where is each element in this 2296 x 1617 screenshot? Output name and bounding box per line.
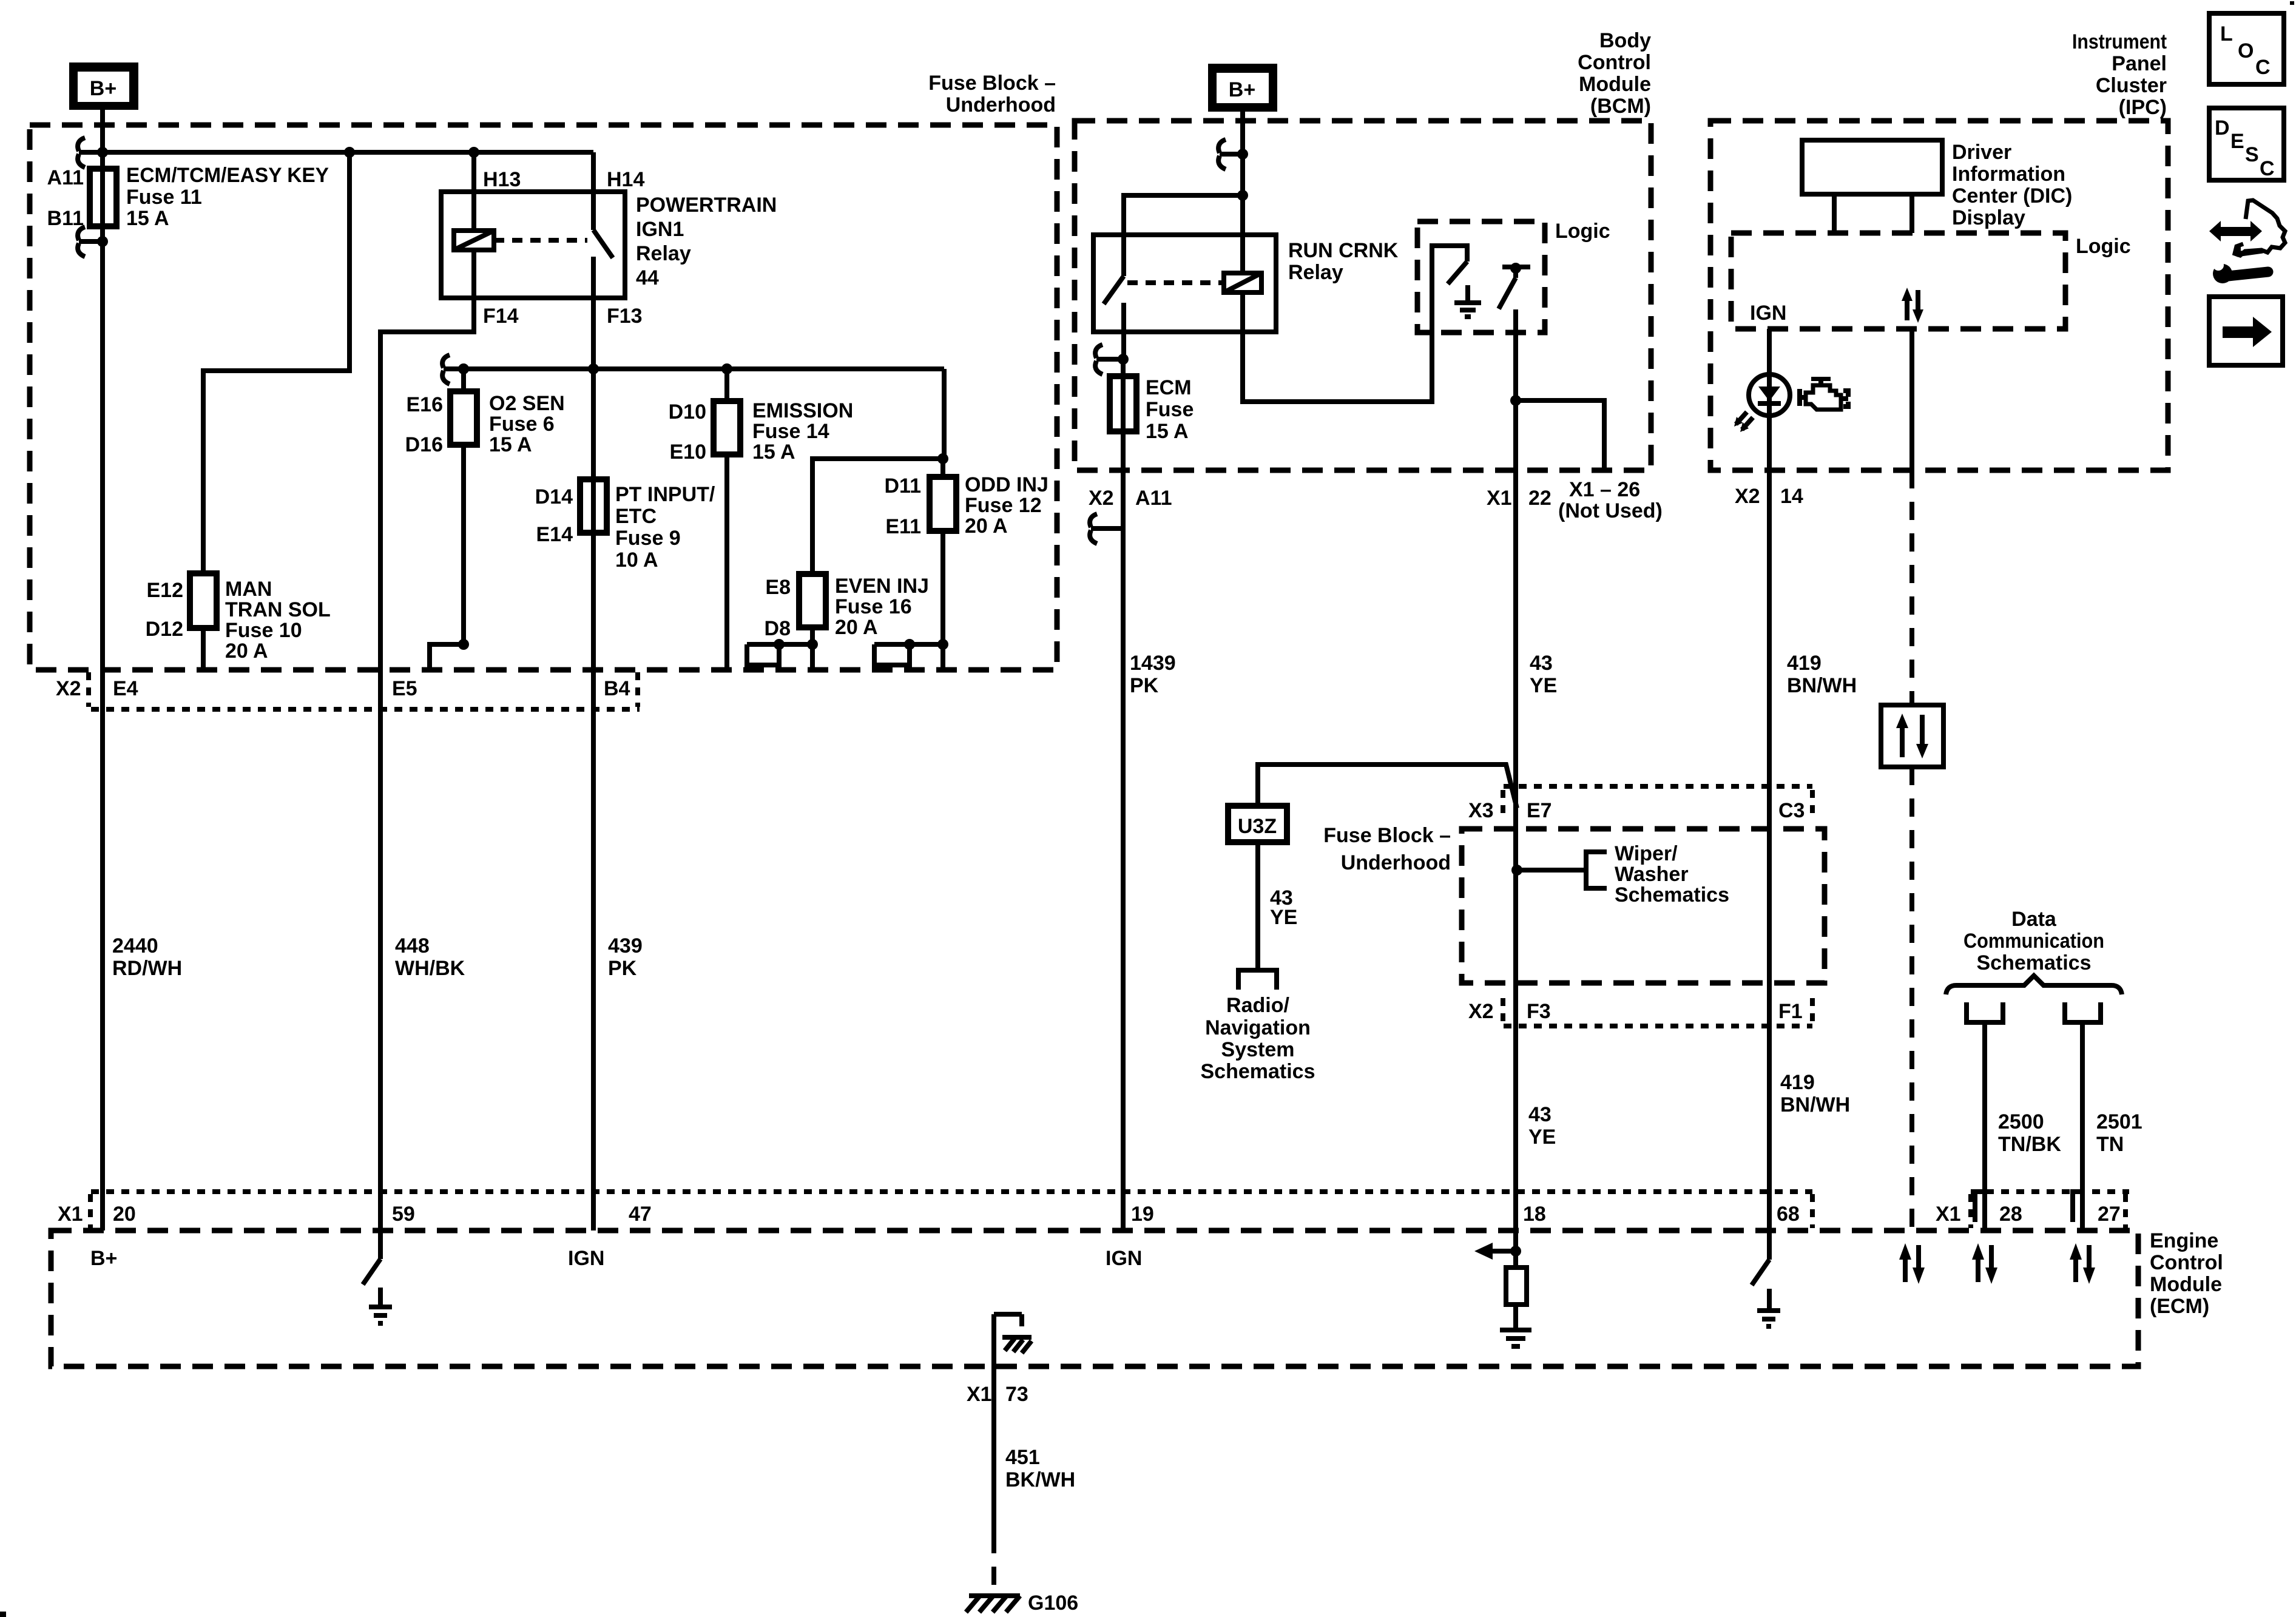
svg-text:20: 20 — [113, 1203, 136, 1226]
connector row X2 fuse block — [89, 672, 640, 709]
label Fuse Block Underhood — [928, 72, 1056, 116]
svg-text:43: 43 — [1528, 1103, 1551, 1126]
relay RUN CRNK box — [1093, 235, 1276, 332]
wire H13 coil feed — [471, 152, 476, 231]
svg-text:Cluster: Cluster — [2096, 74, 2167, 97]
svg-text:Fuse 11: Fuse 11 — [126, 186, 202, 209]
svg-text:Underhood: Underhood — [1341, 851, 1451, 874]
node emission fuse tap — [721, 363, 732, 374]
svg-text:POWERTRAIN: POWERTRAIN — [636, 194, 777, 217]
svg-text:Fuse 10: Fuse 10 — [225, 619, 302, 642]
legend icon wrench — [2212, 260, 2268, 283]
svg-text:Logic: Logic — [2076, 235, 2131, 258]
connector clip B11 — [78, 227, 108, 257]
relay K44 switch — [593, 152, 613, 298]
svg-text:E12: E12 — [147, 579, 184, 602]
svg-text:Fuse 6: Fuse 6 — [489, 413, 555, 436]
svg-text:U3Z: U3Z — [1238, 815, 1277, 838]
wire 2440 to ECM pin 20 — [100, 241, 105, 1230]
svg-text:Data: Data — [2011, 908, 2057, 931]
wire F14 to pin 59 (448) — [380, 250, 474, 1230]
wire pin 18 internal — [1513, 1230, 1518, 1268]
legend icon DESC — [2209, 108, 2284, 180]
svg-text:Radio/: Radio/ — [1226, 994, 1289, 1017]
svg-text:Instrument: Instrument — [2072, 30, 2167, 53]
switch ECM pin 68 — [1752, 1232, 1769, 1285]
value label ECM Fuse 15A — [1146, 376, 1194, 443]
svg-text:Underhood: Underhood — [946, 93, 1056, 116]
node even inj branch — [937, 453, 948, 464]
svg-text:Washer: Washer — [1615, 863, 1689, 886]
svg-text:IGN: IGN — [1106, 1247, 1142, 1270]
ground ECM pin 59 — [369, 1288, 392, 1323]
wire wiper washer branch — [1517, 868, 1586, 873]
value label Fuse 14 15A — [752, 399, 853, 464]
wire X1-26 not used — [1516, 400, 1604, 470]
svg-text:O2 SEN: O2 SEN — [489, 392, 565, 415]
module IPC box — [1710, 121, 2168, 470]
wire 451 dashed — [991, 1535, 996, 1596]
wire B+ into BCM — [1240, 112, 1245, 195]
svg-text:44: 44 — [636, 266, 659, 289]
connector clip below BCM — [1090, 514, 1123, 544]
connector bracket wiper washer — [1586, 852, 1607, 888]
svg-text:Driver: Driver — [1952, 141, 2011, 164]
wire label 2500 TN/BK — [1998, 1110, 2061, 1156]
svg-text:439: 439 — [608, 934, 643, 957]
module ECM box — [51, 1230, 2138, 1366]
value label Fuse 11 15A — [126, 164, 329, 230]
svg-text:Fuse 9: Fuse 9 — [615, 527, 681, 550]
wire ignition fuse bus — [444, 366, 944, 371]
relay RUN CRNK link dashed — [1127, 280, 1224, 285]
svg-text:X1 – 26: X1 – 26 — [1569, 478, 1640, 501]
fuse F11 ECM/TCM/EASY KEY — [90, 152, 116, 241]
wire label 2440 RD/WH — [112, 934, 182, 980]
label Driver Information Center — [1952, 141, 2072, 229]
svg-text:Relay: Relay — [636, 242, 691, 265]
svg-text:Module: Module — [1579, 73, 1651, 96]
svg-text:Fuse: Fuse — [1146, 398, 1194, 421]
svg-text:B+: B+ — [90, 1247, 117, 1270]
svg-text:YE: YE — [1270, 906, 1297, 929]
svg-text:TRAN SOL: TRAN SOL — [225, 598, 331, 621]
relay K44 coil — [454, 231, 494, 250]
svg-text:Fuse 16: Fuse 16 — [835, 595, 912, 618]
data arrows IPC logic — [1902, 288, 1923, 323]
svg-text:D14: D14 — [535, 485, 573, 508]
wire 451 solid — [991, 1314, 996, 1535]
svg-text:2440: 2440 — [112, 934, 158, 957]
wire U3Z branch — [1258, 765, 1517, 808]
svg-text:Relay: Relay — [1288, 261, 1343, 284]
wire U3Z to radio — [1255, 842, 1260, 970]
svg-text:(ECM): (ECM) — [2150, 1295, 2209, 1318]
connector row X1 ECM dotted — [90, 1192, 1812, 1228]
wire 2501 TN — [2080, 1022, 2085, 1230]
svg-text:X1: X1 — [1936, 1203, 1961, 1226]
pin X1-26 label — [1558, 478, 1663, 522]
wire branch to even inj — [812, 459, 943, 574]
value label Fuse 10 20A — [225, 578, 331, 663]
wire even inj splice loop — [747, 639, 818, 665]
svg-text:C: C — [2255, 56, 2271, 79]
mark page dot top right — [2290, 1, 2294, 5]
svg-text:YE: YE — [1528, 1126, 1556, 1149]
svg-text:ETC: ETC — [615, 505, 657, 528]
label Fuse Block Underhood middle — [1323, 824, 1451, 874]
svg-text:Fuse 12: Fuse 12 — [965, 494, 1042, 517]
icon check engine — [1800, 377, 1848, 410]
svg-text:X3: X3 — [1468, 799, 1494, 822]
svg-text:20 A: 20 A — [965, 515, 1008, 538]
svg-text:27: 27 — [2098, 1203, 2121, 1226]
value label RUN CRNK Relay — [1288, 239, 1399, 284]
svg-text:Control: Control — [1578, 51, 1651, 74]
connector clip BCM B+ — [1218, 140, 1248, 169]
svg-text:BN/WH: BN/WH — [1780, 1093, 1850, 1116]
wire serial data IPC leg — [1909, 329, 1914, 470]
svg-text:20 A: 20 A — [835, 616, 878, 639]
logic box IPC — [1731, 233, 2065, 329]
svg-text:(IPC): (IPC) — [2119, 96, 2167, 119]
wire serial data dashed upper — [1909, 470, 1914, 705]
resistor ECM pull — [1506, 1268, 1527, 1305]
connector fork radio — [1238, 970, 1277, 990]
relay RUN CRNK switch — [1104, 235, 1124, 359]
svg-text:Navigation: Navigation — [1205, 1016, 1311, 1039]
label Engine Control Module — [2150, 1229, 2223, 1318]
wire 1439 to ECM pin 19 — [1121, 470, 1126, 1230]
svg-text:EVEN INJ: EVEN INJ — [835, 575, 929, 598]
ground G106 — [966, 1596, 1020, 1612]
svg-text:Control: Control — [2150, 1251, 2223, 1274]
legend icon hand arrow — [2209, 200, 2285, 255]
svg-text:Module: Module — [2150, 1273, 2222, 1296]
svg-text:RUN CRNK: RUN CRNK — [1288, 239, 1399, 262]
wire odd inj splice loop — [874, 639, 948, 665]
wire IGN lamp — [1767, 329, 1772, 470]
svg-text:(BCM): (BCM) — [1590, 95, 1651, 118]
svg-text:68: 68 — [1777, 1203, 1800, 1226]
svg-text:2500: 2500 — [1998, 1110, 2044, 1133]
wire serial data dashed lower — [1909, 767, 1914, 1232]
wire coil to logic — [1243, 246, 1467, 402]
svg-text:Display: Display — [1952, 206, 2025, 229]
label Radio Navigation — [1201, 994, 1315, 1083]
power symbol B+ (BCM) — [1208, 64, 1277, 112]
svg-text:2501: 2501 — [2096, 1110, 2142, 1133]
wire pin 73 ground hook — [994, 1314, 1022, 1326]
svg-text:Fuse Block –: Fuse Block – — [928, 72, 1056, 95]
node B+ branch — [1237, 190, 1248, 201]
svg-text:Fuse Block –: Fuse Block – — [1323, 824, 1451, 847]
legend icon LOC — [2209, 13, 2284, 84]
svg-text:D8: D8 — [765, 617, 791, 640]
svg-text:43: 43 — [1530, 652, 1553, 675]
wire label 1439 PK — [1130, 652, 1176, 697]
svg-text:H14: H14 — [607, 168, 644, 191]
svg-text:28: 28 — [1999, 1203, 2022, 1226]
relay RUN CRNK coil — [1224, 195, 1261, 292]
svg-text:L: L — [2220, 22, 2233, 46]
svg-text:Information: Information — [1952, 163, 2065, 186]
power symbol B+ (left) — [69, 62, 138, 110]
svg-text:59: 59 — [392, 1203, 415, 1226]
svg-text:Fuse 14: Fuse 14 — [752, 420, 829, 443]
fuse F6 O2 SEN — [450, 369, 477, 644]
display DIC — [1802, 140, 1942, 233]
svg-text:419: 419 — [1787, 652, 1822, 675]
svg-text:Communication: Communication — [1963, 930, 2104, 953]
node pin 18 — [1510, 1246, 1521, 1257]
svg-text:Engine: Engine — [2150, 1229, 2218, 1252]
svg-text:B11: B11 — [47, 207, 84, 230]
relay K44 link dashed — [494, 238, 587, 243]
svg-text:PT INPUT/: PT INPUT/ — [615, 483, 715, 506]
wire B+ to bus — [100, 110, 105, 152]
svg-text:22: 22 — [1528, 487, 1551, 510]
svg-text:BK/WH: BK/WH — [1005, 1468, 1075, 1491]
svg-text:PK: PK — [608, 957, 637, 980]
wire IPC 419 down — [1767, 470, 1772, 1232]
svg-text:PK: PK — [1130, 674, 1159, 697]
svg-text:F3: F3 — [1527, 1000, 1551, 1023]
connector row X1 28 27 dotted — [1971, 1192, 2129, 1228]
connector clip O2 bus — [442, 355, 450, 384]
wire label 448 WH/BK — [395, 934, 465, 980]
node wiper washer tap — [1511, 865, 1522, 876]
switch logic driver coil side — [1448, 262, 1467, 284]
switch ECM pin 59 — [363, 1230, 380, 1284]
connector fork 2501 — [2065, 1002, 2101, 1022]
ground logic internal — [1454, 285, 1481, 317]
svg-text:E14: E14 — [536, 523, 573, 546]
svg-text:D: D — [2215, 116, 2230, 140]
svg-text:E: E — [2230, 130, 2244, 153]
svg-text:C: C — [2260, 157, 2275, 180]
wire bus corner to odd inj — [942, 369, 947, 459]
svg-text:Schematics: Schematics — [1201, 1060, 1315, 1083]
svg-text:EMISSION: EMISSION — [752, 399, 853, 422]
svg-text:E4: E4 — [113, 677, 138, 700]
svg-text:IGN1: IGN1 — [636, 218, 684, 241]
svg-text:X1: X1 — [58, 1203, 83, 1226]
wire label 419 BN/WH lower — [1780, 1071, 1850, 1116]
svg-text:G106: G106 — [1028, 1592, 1078, 1615]
node O2 fuse tap — [458, 363, 469, 374]
wire O2 fuse exit loop — [430, 639, 469, 670]
node bus junction at fuse 11 — [97, 147, 108, 158]
svg-text:1439: 1439 — [1130, 652, 1176, 675]
connector row X3 dotted — [1503, 786, 1812, 818]
svg-text:A11: A11 — [47, 166, 84, 189]
svg-text:B4: B4 — [604, 677, 630, 700]
connector fork 2500 — [1967, 1002, 2003, 1022]
wire to fuse 10 — [203, 152, 349, 573]
connector row X2 F3 dotted — [1503, 998, 1812, 1026]
svg-text:20 A: 20 A — [225, 640, 268, 663]
svg-text:448: 448 — [395, 934, 430, 957]
fuse F14 EMISSION — [714, 369, 740, 670]
svg-text:19: 19 — [1131, 1203, 1154, 1226]
svg-text:ECM: ECM — [1146, 376, 1192, 399]
svg-text:Logic: Logic — [1555, 220, 1610, 243]
pin bracket 28 — [1975, 1192, 1986, 1222]
svg-text:X2: X2 — [56, 677, 81, 700]
fuse block underhood middle box — [1462, 829, 1825, 983]
svg-text:15 A: 15 A — [489, 433, 532, 456]
label Instrument Panel Cluster — [2072, 30, 2167, 119]
wire label 419 BN/WH upper — [1787, 652, 1857, 697]
data arrows ECM pin 27 — [2070, 1243, 2095, 1284]
connector clip A11 — [78, 138, 103, 167]
value label Fuse 16 20A — [835, 575, 929, 639]
relay K44 POWERTRAIN IGN1 box — [441, 192, 625, 298]
svg-text:TN: TN — [2096, 1133, 2124, 1156]
wire branch to relay switch — [1124, 195, 1243, 235]
svg-text:D16: D16 — [405, 433, 443, 456]
connector U3Z — [1228, 806, 1287, 842]
arrow pin 18 left — [1474, 1243, 1516, 1260]
svg-text:IGN: IGN — [568, 1247, 604, 1270]
svg-text:10 A: 10 A — [615, 549, 658, 572]
lamp MIL LED indicator — [1734, 374, 1790, 432]
fuse F12 ODD INJ — [930, 459, 956, 670]
svg-text:F13: F13 — [607, 305, 643, 328]
wire label 43 YE lower — [1528, 1103, 1556, 1149]
label Body Control Module (BCM) — [1578, 29, 1651, 118]
svg-text:Schematics: Schematics — [1615, 883, 1729, 906]
svg-text:B+: B+ — [90, 77, 116, 100]
label Data Communication Schematics — [1963, 908, 2104, 974]
svg-text:Wiper/: Wiper/ — [1615, 842, 1678, 865]
svg-text:B+: B+ — [1229, 78, 1255, 101]
wire bus B+ feed — [103, 150, 593, 155]
svg-text:ECM/TCM/EASY KEY: ECM/TCM/EASY KEY — [126, 164, 329, 187]
svg-text:X1: X1 — [967, 1383, 992, 1406]
fuse F9 PT INPUT/ETC — [580, 479, 607, 533]
svg-text:15 A: 15 A — [1146, 420, 1189, 443]
svg-text:E10: E10 — [670, 441, 707, 464]
svg-text:BN/WH: BN/WH — [1787, 674, 1857, 697]
svg-text:IGN: IGN — [1750, 302, 1786, 325]
svg-text:X2: X2 — [1735, 485, 1760, 508]
logic box BCM — [1417, 221, 1545, 333]
node bus junction man tran sol — [344, 147, 355, 158]
svg-text:X1: X1 — [1487, 487, 1512, 510]
wire label 43 YE radio — [1270, 886, 1297, 929]
wire label 439 PK — [608, 934, 643, 980]
symbol data link box — [1881, 705, 1943, 767]
svg-text:S: S — [2245, 143, 2259, 166]
ground internal ECM mini — [1002, 1337, 1032, 1353]
svg-text:TN/BK: TN/BK — [1998, 1133, 2061, 1156]
data arrows ECM serial — [1899, 1243, 1925, 1284]
svg-text:47: 47 — [629, 1203, 652, 1226]
switch logic output driver — [1499, 263, 1530, 309]
data arrows ECM pin 28 — [1972, 1243, 1997, 1284]
wire label 451 BK/WH — [1005, 1446, 1075, 1491]
svg-text:RD/WH: RD/WH — [112, 957, 182, 980]
svg-text:X2: X2 — [1089, 487, 1114, 510]
brace data communication — [1946, 976, 2122, 994]
svg-text:H13: H13 — [483, 168, 521, 191]
fuse ECM Fuse 15A — [1110, 359, 1136, 470]
node F13 bus junction — [588, 363, 599, 374]
svg-text:Center (DIC): Center (DIC) — [1952, 184, 2072, 208]
svg-text:A11: A11 — [1135, 487, 1172, 510]
wire F13 ignition bus down — [591, 257, 596, 1230]
svg-text:MAN: MAN — [225, 578, 272, 601]
value label Relay 44 — [636, 194, 777, 289]
svg-text:O: O — [2238, 39, 2254, 62]
svg-text:451: 451 — [1005, 1446, 1040, 1469]
wire label 2501 TN — [2096, 1110, 2142, 1156]
wire 2500 TN/BK — [1982, 1022, 1987, 1230]
svg-text:F1: F1 — [1778, 1000, 1803, 1023]
ground ECM pin 18 — [1500, 1305, 1531, 1346]
legend icon arrow box — [2209, 297, 2283, 365]
svg-text:ODD INJ: ODD INJ — [965, 473, 1048, 496]
svg-text:419: 419 — [1780, 1071, 1815, 1094]
svg-text:14: 14 — [1780, 485, 1803, 508]
svg-text:15 A: 15 A — [126, 207, 169, 230]
label Wiper Washer Schematics — [1615, 842, 1729, 906]
svg-text:Body: Body — [1599, 29, 1651, 52]
svg-text:18: 18 — [1523, 1203, 1546, 1226]
mark page dot bottom left — [0, 1612, 6, 1617]
value label Fuse 9 10A — [615, 483, 715, 572]
svg-text:E16: E16 — [407, 393, 444, 416]
svg-text:System: System — [1221, 1038, 1295, 1061]
node X1-26 branch — [1510, 395, 1521, 406]
ground ECM pin 68 — [1757, 1289, 1780, 1326]
svg-text:WH/BK: WH/BK — [395, 957, 465, 980]
svg-text:YE: YE — [1530, 674, 1557, 697]
node bus junction relay coil — [468, 147, 479, 158]
fuse F16 EVEN INJ — [799, 574, 826, 670]
svg-text:D11: D11 — [885, 474, 922, 498]
fuse block underhood box — [30, 125, 1057, 670]
svg-text:E8: E8 — [765, 576, 791, 599]
svg-text:D10: D10 — [669, 400, 706, 424]
svg-text:Schematics: Schematics — [1977, 951, 2092, 974]
svg-text:15 A: 15 A — [752, 441, 795, 464]
svg-text:(Not Used): (Not Used) — [1558, 499, 1663, 522]
svg-text:F14: F14 — [483, 305, 519, 328]
pin bracket 27 — [2073, 1192, 2084, 1222]
svg-text:E5: E5 — [392, 677, 417, 700]
svg-text:D12: D12 — [146, 618, 183, 641]
svg-text:E11: E11 — [885, 515, 921, 538]
fuse F10 MAN TRAN SOL — [190, 573, 217, 670]
wire logic output to pin 22 — [1513, 309, 1518, 1230]
svg-text:E7: E7 — [1527, 799, 1552, 822]
value label Fuse 6 15A — [489, 392, 565, 456]
svg-text:X2: X2 — [1468, 1000, 1494, 1023]
wire label 43 YE upper — [1530, 652, 1557, 697]
pin X1 73 labels — [967, 1383, 1028, 1406]
svg-text:C3: C3 — [1778, 799, 1805, 822]
svg-text:73: 73 — [1005, 1383, 1028, 1406]
connector clip ECM fuse — [1095, 345, 1129, 374]
value label Fuse 12 20A — [965, 473, 1048, 538]
svg-text:Panel: Panel — [2112, 52, 2167, 75]
module BCM box — [1075, 121, 1651, 470]
